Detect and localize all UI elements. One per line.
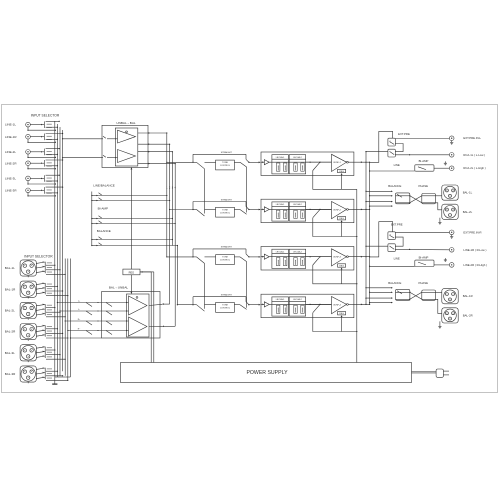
svg-text:ODNF-1: ODNF-1 xyxy=(333,162,342,164)
svg-text:ODNF-2: ODNF-2 xyxy=(333,209,342,211)
svg-text:BALANCE: BALANCE xyxy=(388,184,401,188)
svg-text:INPUT SELECTOR: INPUT SELECTOR xyxy=(31,114,60,118)
svg-text:PHASE: PHASE xyxy=(419,281,429,285)
svg-text:LECUA-2: LECUA-2 xyxy=(293,203,303,206)
svg-text:TONE: TONE xyxy=(222,305,228,307)
svg-text:REG: REG xyxy=(339,265,344,267)
svg-text:EXT.PRE: EXT.PRE xyxy=(391,222,403,226)
svg-text:BAL-3R: BAL-3R xyxy=(5,372,16,376)
svg-text:INPUT SELECTOR: INPUT SELECTOR xyxy=(24,255,53,259)
svg-text:LECUA-1: LECUA-1 xyxy=(276,250,286,253)
svg-text:STRAIGHT: STRAIGHT xyxy=(221,294,233,297)
svg-text:PHASE: PHASE xyxy=(419,184,429,188)
svg-text:LINE-2R: LINE-2R xyxy=(5,161,17,165)
svg-text:LINE-3R: LINE-3R xyxy=(5,188,17,192)
svg-text:LECUA-2: LECUA-2 xyxy=(293,156,303,159)
svg-text:BAL-2L: BAL-2L xyxy=(5,309,15,313)
svg-text:BAL-2L: BAL-2L xyxy=(463,210,473,214)
svg-text:RCA-1L ( L-Low ): RCA-1L ( L-Low ) xyxy=(463,153,485,157)
svg-text:LINE-2L: LINE-2L xyxy=(5,150,16,154)
svg-text:ODNF-4: ODNF-4 xyxy=(333,304,342,306)
svg-text:BI-AMP: BI-AMP xyxy=(419,255,429,259)
svg-text:CONTROL: CONTROL xyxy=(220,308,231,310)
svg-text:REG: REG xyxy=(129,270,135,274)
svg-text:LINE-1R: LINE-1R xyxy=(5,135,17,139)
svg-text:LINE-3L: LINE-3L xyxy=(5,177,16,181)
svg-text:CONTROL: CONTROL xyxy=(220,260,231,262)
svg-text:REG: REG xyxy=(339,171,344,173)
svg-text:LECUA-2: LECUA-2 xyxy=(293,298,303,301)
svg-text:EXT.PRE.IN-L: EXT.PRE.IN-L xyxy=(463,136,481,140)
svg-text:LINE: LINE xyxy=(394,163,400,167)
svg-text:TONE: TONE xyxy=(222,162,228,164)
svg-text:STRAIGHT: STRAIGHT xyxy=(221,246,233,249)
svg-text:TONE: TONE xyxy=(222,257,228,259)
svg-text:BAL-1L: BAL-1L xyxy=(463,191,473,195)
svg-text:LINE-2R ( R-High ): LINE-2R ( R-High ) xyxy=(463,263,487,267)
svg-text:BI-AMP: BI-AMP xyxy=(419,159,429,163)
svg-text:REG: REG xyxy=(339,313,344,315)
svg-text:BAL-2R: BAL-2R xyxy=(463,313,473,317)
svg-text:LINE: LINE xyxy=(394,256,400,260)
svg-text:LECUA-1: LECUA-1 xyxy=(276,203,286,206)
svg-text:STRAIGHT: STRAIGHT xyxy=(221,151,233,154)
svg-text:LINE-1L: LINE-1L xyxy=(5,123,16,127)
svg-text:RCA-2L ( L-High ): RCA-2L ( L-High ) xyxy=(463,166,485,170)
svg-text:BAL-1R: BAL-1R xyxy=(5,287,16,291)
svg-text:BALANCE: BALANCE xyxy=(97,229,111,233)
svg-text:POWER SUPPLY: POWER SUPPLY xyxy=(246,370,288,376)
svg-text:BAL-1L: BAL-1L xyxy=(5,266,15,270)
svg-text:TONE: TONE xyxy=(222,209,228,211)
svg-text:EXT.PRE.IN-R: EXT.PRE.IN-R xyxy=(463,230,481,234)
svg-text:BAL-3L: BAL-3L xyxy=(5,351,15,355)
svg-text:LECUA-1: LECUA-1 xyxy=(276,298,286,301)
svg-text:LECUA-1: LECUA-1 xyxy=(276,156,286,159)
svg-text:BAL-1R: BAL-1R xyxy=(463,294,473,298)
svg-text:UNBAL→BAL: UNBAL→BAL xyxy=(116,121,136,125)
svg-text:LINE-1R ( R-Low ): LINE-1R ( R-Low ) xyxy=(463,248,486,252)
svg-text:ODNF-3: ODNF-3 xyxy=(333,257,342,259)
svg-text:STRAIGHT: STRAIGHT xyxy=(221,198,233,201)
svg-text:BAL-2R: BAL-2R xyxy=(5,330,16,334)
svg-text:BAL→UNBAL: BAL→UNBAL xyxy=(109,285,129,289)
svg-text:REG: REG xyxy=(339,218,344,220)
svg-text:CONTROL: CONTROL xyxy=(220,165,231,167)
svg-text:BALANCE: BALANCE xyxy=(388,281,401,285)
svg-text:EXT.PRE: EXT.PRE xyxy=(398,132,410,136)
svg-text:LECUA-2: LECUA-2 xyxy=(293,250,303,253)
svg-text:CONTROL: CONTROL xyxy=(220,212,231,214)
svg-text:LINE/BALANCE: LINE/BALANCE xyxy=(93,183,115,187)
svg-text:BI-AMP: BI-AMP xyxy=(98,206,108,210)
